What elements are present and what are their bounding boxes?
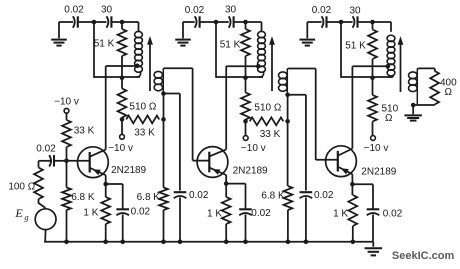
tap node on L3: [256, 64, 261, 69]
wire: [183, 21, 195, 23]
node (rail, 1K stage 3): [351, 240, 356, 245]
wire: [162, 93, 164, 94]
node S2b (secondary 2 bottom): [285, 92, 290, 97]
capacitor C2 30 (stage 1 tank): [101, 5, 113, 28]
wire (collector tap, stage 1): [106, 65, 138, 67]
resistor R10 33K (stage 1 bias): [62, 113, 95, 161]
node (rail, C10): [243, 240, 248, 245]
svg-text:33 K: 33 K: [260, 129, 281, 140]
wire: [413, 104, 435, 106]
resistor R6 33K (stage 2 decoupling): [250, 117, 284, 139]
capacitor C4 30 (stage 2 tank): [225, 5, 237, 28]
node (rail, C11): [304, 240, 309, 245]
capacitor C7 0.02 (input coupling): [36, 144, 66, 167]
wire: [373, 22, 392, 32]
wire: [352, 184, 373, 209]
wire: [39, 199, 45, 209]
wire: [341, 22, 373, 78]
svg-text:510 Ω: 510 Ω: [254, 102, 281, 113]
terminal -10v (stage 1 supply): [108, 134, 133, 153]
svg-text:1 K: 1 K: [333, 209, 348, 220]
capacitor C9 0.02 (stage 2 base bypass): [174, 190, 209, 201]
node (Q1 base): [64, 159, 69, 164]
svg-text:0.02: 0.02: [36, 144, 56, 155]
resistor R3 33K (stage 1 decoupling): [126, 116, 159, 139]
terminal -10v (stage 3 supply): [364, 136, 389, 154]
node (rail, 6.8K stage 1): [64, 240, 69, 245]
tap node on L5: [386, 64, 391, 69]
svg-text:0.02: 0.02: [251, 208, 271, 219]
node (33K right end, stage 2): [285, 119, 290, 124]
terminal -10v (stage 2 supply): [241, 136, 266, 154]
resistor R17 1K (stage 3): [333, 184, 357, 242]
wire: [200, 21, 216, 23]
tuning arrow (stage 1): [147, 36, 153, 91]
resistor R16 6.8K (stage 3): [261, 121, 292, 242]
svg-text:−10 v: −10 v: [54, 96, 79, 107]
wire: [122, 22, 139, 32]
inductor L2 secondary (transformer to stage 2): [154, 68, 165, 92]
resistor R13 1K (stage 1): [83, 184, 110, 242]
capacitor C6 30 (stage 3 tank): [349, 6, 361, 28]
ground G2 (top, stage 2): [175, 22, 191, 46]
ground G1 (top, stage 1): [51, 22, 67, 46]
wire: [234, 21, 246, 23]
svg-text:2N2189: 2N2189: [111, 165, 146, 176]
node (rail, 6.8K stage 3): [286, 240, 291, 245]
svg-text:−10 v: −10 v: [364, 143, 389, 154]
node (output ground node): [411, 103, 416, 108]
transistor Q2 2N2189 (stage 2): [193, 66, 268, 183]
svg-text:33 K: 33 K: [74, 126, 95, 137]
resistor R15 1K (stage 2): [207, 184, 231, 242]
svg-text:30: 30: [225, 5, 237, 16]
resistor R4 51K (stage 2): [220, 22, 250, 77]
node (Q2 emitter): [224, 181, 229, 186]
node (rail, C8): [120, 240, 125, 245]
wire: [164, 94, 180, 191]
node (Q1 emitter): [103, 182, 108, 187]
wire: [179, 197, 181, 241]
wire: [216, 22, 246, 78]
resistor R5 510 ohm (stage 2): [241, 78, 282, 122]
wire: [419, 68, 435, 71]
svg-text:Ω: Ω: [385, 113, 393, 124]
wire (secondary 2 top to stage 3 base): [289, 69, 316, 160]
wire: [307, 21, 321, 23]
ground G5 (rail end): [365, 242, 383, 256]
capacitor C8 0.02 (stage 1 emitter bypass): [116, 206, 150, 217]
inductor L6 secondary (output transformer): [409, 68, 420, 105]
capacitor C11 0.02 (stage 3 base bypass): [300, 190, 334, 201]
wire: [288, 95, 306, 191]
wire: [39, 161, 53, 168]
wire (secondary 1 top to stage 2 base): [165, 68, 193, 160]
wire: [226, 184, 245, 210]
capacitor C1 0.02 (neutralizing, stage 1): [64, 5, 84, 28]
inductor L5 primary (stage 3 tank coil): [373, 35, 395, 77]
wire: [163, 94, 165, 120]
svg-text:51 K: 51 K: [94, 38, 115, 49]
svg-text:0.02: 0.02: [312, 5, 332, 16]
node B2: [243, 20, 248, 25]
svg-text:2N2189: 2N2189: [361, 166, 396, 177]
resistor R12 6.8K (stage 1): [62, 161, 95, 242]
wire: [341, 21, 353, 23]
node (Q3 emitter): [350, 182, 355, 187]
svg-text:0.02: 0.02: [189, 190, 209, 201]
node K2: [243, 119, 248, 124]
ground G3 (top, stage 3): [300, 22, 316, 46]
resistor R9 400 ohm (load): [430, 71, 457, 105]
wire: [44, 230, 46, 242]
wire: [246, 22, 262, 32]
svg-text:100 Ω: 100 Ω: [8, 181, 35, 192]
svg-text:30: 30: [349, 6, 361, 17]
node B3: [370, 20, 375, 25]
inductor L3 primary (stage 2 tank coil): [246, 31, 266, 77]
resistor R2 510 ohm (stage 1): [118, 78, 157, 120]
wire: [372, 215, 374, 242]
svg-text:30: 30: [101, 5, 113, 16]
tuning arrow (stage 2): [269, 36, 275, 91]
svg-text:E: E: [14, 206, 23, 220]
wire: [94, 22, 122, 78]
svg-text:1 K: 1 K: [207, 208, 222, 219]
wire: [287, 95, 289, 122]
svg-text:0.02: 0.02: [64, 5, 84, 16]
node (rail, 1K stage 1): [103, 240, 108, 245]
wire: [111, 21, 122, 23]
wire: [78, 21, 94, 23]
svg-text:−10 v: −10 v: [108, 143, 133, 154]
svg-text:6.8 K: 6.8 K: [261, 191, 285, 202]
svg-text:33 K: 33 K: [134, 127, 155, 138]
wire (collector tap, stage 2): [226, 65, 258, 67]
tap node on L1: [135, 64, 140, 69]
svg-text:6.8 K: 6.8 K: [71, 192, 95, 203]
svg-text:0.02: 0.02: [185, 5, 205, 16]
wire: [358, 21, 373, 23]
wire: [122, 215, 124, 242]
svg-text:−10 v: −10 v: [241, 143, 266, 154]
wire: [305, 197, 307, 241]
svg-text:0.02: 0.02: [314, 190, 334, 201]
svg-text:0.02: 0.02: [383, 209, 403, 220]
resistor R8 510 ohm (stage 3): [368, 78, 398, 136]
capacitor C10 0.02 (stage 2 emitter bypass): [239, 208, 271, 219]
node (rail, C9): [178, 240, 183, 245]
inductor L4 secondary (transformer to stage 3): [279, 69, 290, 94]
inductor L1 primary (stage 1 tank coil): [122, 31, 142, 77]
node J1: [120, 76, 125, 81]
generator Eg (signal source): [14, 206, 56, 230]
svg-text:510 Ω: 510 Ω: [129, 102, 156, 113]
svg-text:2N2189: 2N2189: [233, 165, 268, 176]
svg-text:51 K: 51 K: [345, 40, 366, 51]
transistor Q1 2N2189 (stage 1): [67, 66, 147, 184]
watermark SeekIC.com: [392, 250, 455, 262]
resistor R11 100 ohm (source): [8, 168, 43, 200]
wire: [121, 119, 123, 134]
node B1: [120, 20, 125, 25]
capacitor C5 0.02 (neutralizing, stage 3): [312, 5, 332, 28]
terminal -10v (stage 1 bias): [54, 96, 79, 113]
capacitor C3 0.02 (neutralizing, stage 2): [185, 5, 205, 28]
node S1b (secondary 1 bottom): [161, 91, 166, 96]
svg-text:g: g: [24, 212, 28, 222]
resistor R1 51K (stage 1): [94, 22, 127, 77]
svg-text:51 K: 51 K: [220, 39, 241, 50]
svg-text:0.02: 0.02: [131, 206, 151, 217]
node J2: [243, 76, 248, 81]
node (33K right end, stage 1): [161, 117, 166, 122]
transistor Q3 2N2189 (stage 3): [316, 66, 397, 184]
wire: [216, 21, 229, 23]
capacitor C12 0.02 (stage 3 emitter bypass): [367, 209, 403, 220]
wire (collector tap, stage 3): [352, 65, 387, 67]
node (rail, 1K stage 2): [224, 240, 229, 245]
node K1: [120, 117, 125, 122]
svg-text:6.8 K: 6.8 K: [137, 192, 161, 203]
svg-text:SeekIC.com: SeekIC.com: [392, 250, 455, 262]
resistor R7 51K (stage 3): [345, 22, 377, 77]
node J3: [370, 76, 375, 81]
wire (ground rail): [44, 241, 373, 243]
node A2: [214, 20, 219, 25]
svg-text:1 K: 1 K: [83, 207, 98, 218]
tuning arrow (stage 3): [398, 36, 404, 92]
wire: [59, 21, 73, 23]
wire: [327, 21, 342, 23]
node (rail, 6.8K stage 2): [161, 240, 166, 245]
resistor R14 6.8K (stage 2): [137, 119, 168, 241]
wire: [245, 215, 247, 242]
node A1: [92, 20, 97, 25]
node A3: [339, 20, 344, 25]
svg-text:Ω: Ω: [445, 87, 453, 98]
wire: [245, 121, 247, 135]
wire: [106, 184, 123, 209]
wire: [94, 21, 107, 23]
ground G4 (output): [404, 105, 422, 121]
